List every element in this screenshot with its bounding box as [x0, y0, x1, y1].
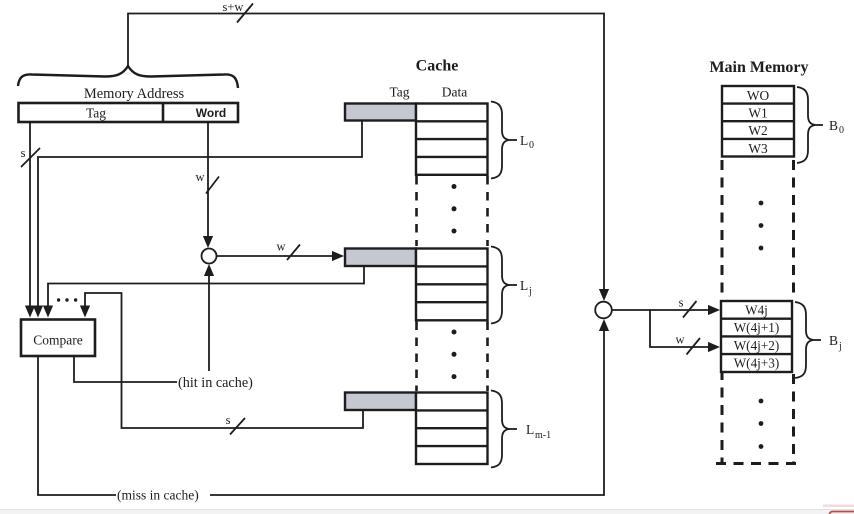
label W(4j+2) — [734, 338, 780, 353]
svg-text:Main Memory: Main Memory — [709, 59, 808, 76]
wire hit to circle (enable) — [208, 274, 210, 371]
svg-text:W4j: W4j — [745, 303, 768, 318]
tick B0 — [815, 124, 823, 126]
arrow into circle top (left) — [203, 236, 213, 248]
dots cache gap 1 — [452, 184, 457, 234]
wire miss to main memory circle — [210, 330, 604, 495]
dots cache gap 2 — [452, 330, 457, 380]
label L0 — [520, 133, 534, 151]
svg-text:W2: W2 — [748, 123, 767, 138]
svg-text:(miss in cache): (miss in cache) — [117, 488, 199, 503]
brace over Memory Address — [18, 66, 238, 88]
label W2 — [748, 123, 767, 138]
label W1 — [748, 106, 767, 121]
arrow into right circle top — [599, 289, 609, 301]
cache line Lm-1 tag cell — [345, 393, 416, 411]
label w (word wire) — [195, 170, 204, 184]
wire Lm-1 tag to compare — [85, 293, 363, 428]
svg-text:Data: Data — [442, 85, 467, 100]
label Main Memory title — [709, 59, 808, 76]
red button corner bottom right — [830, 512, 854, 514]
slash on tag wire — [21, 148, 40, 167]
main memory dashed bottom — [716, 462, 799, 465]
wire hit in cache — [74, 356, 177, 382]
arrow into compare pin3 — [43, 306, 53, 318]
brace L0 — [491, 102, 509, 179]
main memory dashed column right — [792, 160, 795, 462]
junction circle (word select) — [202, 249, 217, 264]
svg-text:W1: W1 — [748, 106, 767, 121]
label s (tag wire) — [21, 146, 26, 160]
svg-text:Memory Address: Memory Address — [84, 86, 185, 102]
svg-text:j: j — [838, 341, 842, 352]
cache dashed gap 2 — [417, 322, 488, 392]
svg-text:m-1: m-1 — [535, 430, 551, 441]
label W(4j+3) — [734, 356, 780, 371]
label W(4j+1) — [734, 320, 780, 335]
block Bj — [721, 301, 792, 372]
label B0 — [829, 118, 844, 136]
label (miss in cache) — [117, 488, 199, 503]
wire w to block Bj — [650, 310, 708, 347]
arrow into W4j row — [708, 305, 720, 315]
wire s to block Bj — [612, 309, 708, 311]
dots main memory lower — [759, 399, 764, 449]
label Bj — [829, 333, 842, 352]
label Tag column — [389, 85, 409, 100]
wire Lj tag to compare — [48, 266, 364, 307]
cache line L0 data block — [416, 104, 488, 175]
svg-text:W(4j+2): W(4j+2) — [734, 338, 780, 353]
slash on w wire — [287, 245, 300, 261]
slash on w wire (Bj) — [687, 338, 701, 355]
slash on word wire — [206, 177, 219, 194]
wire w to cache line Lj — [217, 255, 333, 257]
wire miss in cache — [38, 356, 116, 495]
svg-text:Tag: Tag — [86, 106, 106, 121]
label w (Bj wire) — [675, 333, 684, 347]
svg-text:Compare: Compare — [33, 333, 83, 348]
arrow into compare pin2 — [33, 306, 43, 318]
label Tag (address) — [86, 106, 106, 121]
label (hit in cache) — [178, 375, 253, 391]
wire tag s to compare — [29, 122, 31, 307]
svg-text:j: j — [528, 286, 532, 297]
svg-text:L: L — [520, 278, 528, 293]
svg-text:w: w — [276, 240, 285, 254]
wire s+w top bus — [128, 14, 604, 291]
brace B0 — [797, 87, 815, 163]
svg-text:Tag: Tag — [389, 85, 409, 100]
svg-text:0: 0 — [529, 140, 534, 151]
dots above compare — [57, 298, 77, 301]
arrow into right circle bottom — [599, 319, 609, 331]
svg-text:WO: WO — [747, 88, 770, 103]
label W4j — [745, 303, 768, 318]
arrow into W(4j+2) row — [708, 342, 720, 352]
svg-text:w: w — [675, 333, 684, 347]
svg-text:B: B — [829, 118, 838, 133]
slash on s wire (Lm-1) — [230, 418, 245, 435]
svg-text:W(4j+1): W(4j+1) — [734, 320, 780, 335]
svg-text:W(4j+3): W(4j+3) — [734, 356, 780, 371]
svg-text:s: s — [679, 296, 684, 310]
dots main memory upper — [759, 201, 764, 251]
brace Lj — [491, 247, 509, 324]
slash on s+w bus — [237, 4, 253, 23]
svg-text:s: s — [21, 146, 26, 160]
svg-text:s: s — [226, 413, 231, 427]
svg-text:w: w — [195, 170, 204, 184]
cache line Lj data block — [416, 249, 488, 321]
wire word w to circle — [207, 122, 209, 239]
main memory dashed column left — [721, 160, 724, 462]
arrow into compare pin4 — [80, 306, 90, 318]
svg-text:Word: Word — [196, 106, 226, 120]
pink smudge bottom right — [823, 505, 854, 508]
arrow into compare pin1 — [25, 306, 35, 318]
label w (cache wire) — [276, 240, 285, 254]
brace Bj — [795, 302, 813, 378]
svg-text:B: B — [829, 333, 838, 348]
svg-text:Cache: Cache — [416, 58, 459, 75]
tick Lj — [509, 284, 517, 286]
cache line Lj tag cell — [345, 249, 416, 267]
label WO — [747, 88, 770, 103]
label Memory Address — [84, 86, 185, 102]
label s (Lm-1 wire) — [226, 413, 231, 427]
tick Bj — [813, 339, 821, 341]
label Lj — [520, 278, 532, 297]
cache line L0 tag cell — [345, 104, 416, 121]
svg-text:L: L — [526, 422, 534, 437]
label Lm-1 — [526, 422, 551, 441]
slash on s wire (Bj) — [683, 301, 697, 318]
arrow into circle bottom (left) — [204, 264, 214, 276]
svg-text:(hit in cache): (hit in cache) — [178, 375, 253, 391]
tick L0 — [509, 139, 517, 141]
label Compare — [33, 333, 83, 348]
label Cache title — [416, 58, 459, 75]
arrow into Lj tag cell — [332, 251, 344, 261]
cache line Lm-1 data block — [416, 393, 488, 465]
label Word (address) — [196, 106, 226, 120]
junction circle (main memory) — [595, 302, 612, 319]
svg-text:W3: W3 — [748, 141, 768, 156]
svg-text:L: L — [520, 133, 528, 148]
cache dashed gap 1 — [417, 176, 488, 246]
wire L0 tag to compare — [38, 120, 362, 307]
svg-text:s+w: s+w — [223, 0, 244, 14]
bottom page strip — [0, 509, 854, 514]
tick Lm-1 — [509, 428, 517, 430]
label W3 — [748, 141, 768, 156]
comparator box Compare — [21, 320, 95, 357]
label s (Bj wire) — [679, 296, 684, 310]
brace Lm-1 — [491, 391, 509, 468]
block B0 — [722, 86, 794, 157]
svg-text:0: 0 — [839, 125, 844, 136]
memory address box — [19, 103, 239, 122]
label Data column — [442, 85, 467, 100]
label s+w — [223, 0, 244, 14]
